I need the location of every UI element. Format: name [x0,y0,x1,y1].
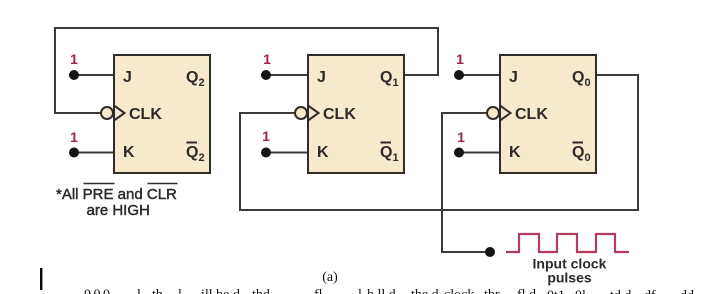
svg-text:dd: dd [680,289,694,294]
node: FF1 K input terminal [69,148,79,158]
svg-text:K: K [509,144,521,161]
U3 pin label J [509,69,518,86]
logic-1 label at FF1 K [70,129,78,145]
svg-text:CLK: CLK [515,106,548,123]
svg-text:are HIGH: are HIGH [87,202,150,219]
svg-text:000: 000 [84,288,113,294]
svg-text:1: 1 [457,129,465,145]
U2 CLK edge triangle [308,106,319,121]
U3 output label Q0-bar [572,143,591,165]
U1 pin label CLK [129,106,162,123]
wire: FF1 K input [74,152,114,154]
U3 output label Q0 [572,69,591,89]
svg-text:fl d: fl d [517,288,536,294]
svg-text:K: K [317,144,329,161]
svg-text:CLK: CLK [323,106,356,123]
U1 CLK edge triangle [114,106,125,121]
node: FF3 K input terminal [454,148,464,158]
wire: FF3 K input [459,152,500,154]
U1 output label Q2 [186,69,205,89]
node: FF1 J input terminal [69,70,79,80]
wire: Q1 output to FF1 CLK (top feedback loop) [55,28,438,113]
svg-text:td d: td d [610,289,631,294]
svg-text:J: J [509,69,518,86]
U2 output label Q1 [380,69,399,89]
U2 pin label CLK [323,106,356,123]
svg-text:the d: the d [411,288,439,294]
svg-text:thr: thr [484,288,500,294]
U2 output label Q1-bar [380,143,399,165]
svg-text:1: 1 [262,128,270,144]
svg-text:l: l [178,288,182,294]
svg-text:1: 1 [70,129,78,145]
svg-text:th: th [152,288,163,294]
wire: FF2 K input [266,152,308,154]
node: FF2 K input terminal [261,148,271,158]
svg-text:0t1: 0t1 [547,289,565,294]
U1 CLK inversion bubble [101,107,113,119]
node: FF3 J input terminal [454,70,464,80]
U2 pin label K [317,144,329,161]
svg-text:*All PRE and CLR: *All PRE and CLR [56,186,177,203]
svg-text:ill be d: ill be d [201,288,240,294]
svg-text:J: J [317,69,326,86]
logic-1 label at FF3 J [456,51,464,67]
svg-text:1: 1 [456,51,464,67]
figure label (a) [322,270,338,285]
svg-text:K: K [123,144,135,161]
wire: FF1 J input [74,74,114,76]
U3 pin label K [509,144,521,161]
wire: Q0 output loop to FF2 CLK [240,75,638,210]
wire: FF3 J input [459,74,500,76]
cropped caption text at bottom right [547,289,694,294]
svg-text:0l: 0l [575,289,586,294]
input clock pulse waveform [506,234,629,252]
svg-text:CLK: CLK [129,106,162,123]
svg-text:(a): (a) [322,270,338,285]
logic-1 label at FF2 J [263,51,271,67]
svg-text:clock: clock [444,288,474,294]
svg-text:1: 1 [263,51,271,67]
U1 output label Q2-bar [186,143,205,165]
U1 pin label J [123,69,132,86]
note: all PRE and CLR are HIGH [56,184,178,220]
caption: Input clock pulses [533,256,607,286]
flip-flop U1 body (Q2 stage) [114,55,210,173]
flip-flop U2 body (Q1 stage) [308,55,404,173]
svg-text:l: l [358,288,362,294]
svg-text:thd: thd [252,288,270,294]
U3 pin label CLK [515,106,548,123]
svg-text:pulses: pulses [547,270,592,286]
wire: FF2 J input [266,74,308,76]
U2 CLK inversion bubble [295,107,307,119]
wire: input clock to FF3 CLK [442,113,490,252]
svg-text:1: 1 [70,51,78,67]
logic-1 label at FF3 K [457,129,465,145]
svg-text:h ll d: h ll d [367,288,396,294]
svg-text:J: J [123,69,132,86]
cropped caption text at bottom edge [84,288,536,294]
U2 pin label J [317,69,326,86]
svg-text:l: l [137,288,141,294]
svg-text:fl: fl [314,288,323,294]
node: FF2 J input terminal [261,70,271,80]
svg-text:df: df [644,289,656,294]
text cursor bar [40,268,42,290]
U3 CLK inversion bubble [487,107,499,119]
node: input clock terminal [485,247,495,257]
logic-1 label at FF1 J [70,51,78,67]
U1 pin label K [123,144,135,161]
logic-1 label at FF2 K [262,128,270,144]
flip-flop U3 body (Q0 stage) [500,55,596,173]
U3 CLK edge triangle [500,106,511,121]
